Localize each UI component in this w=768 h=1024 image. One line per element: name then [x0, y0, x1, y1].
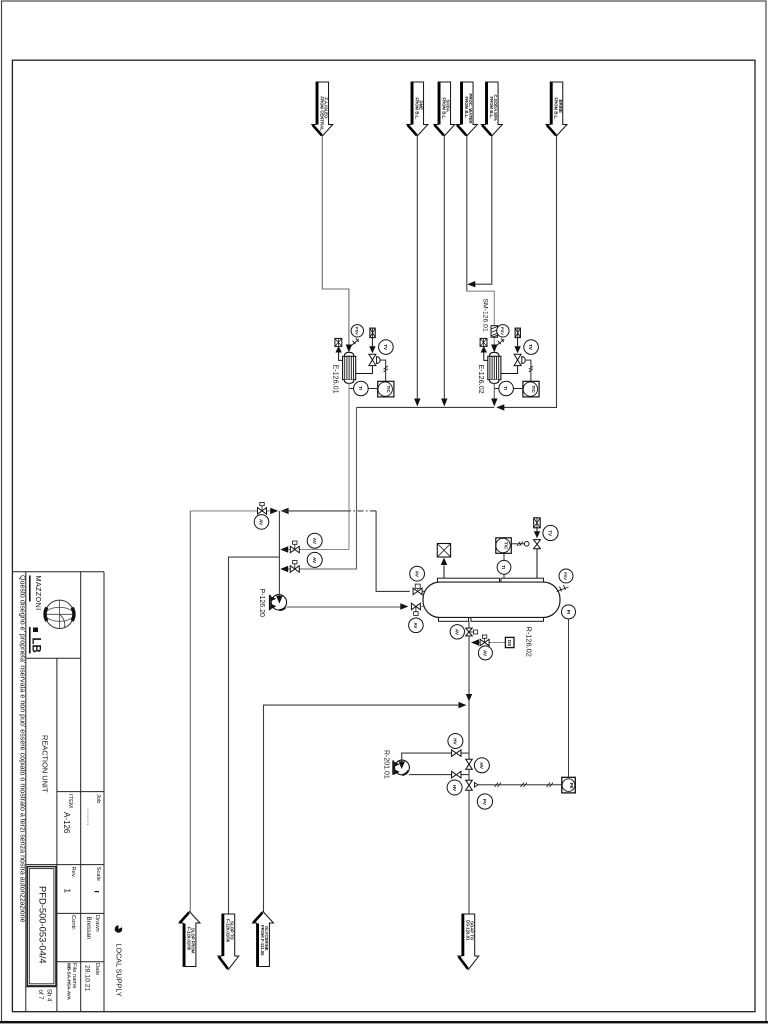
- svg-text:FROM F-111.06: FROM F-111.06: [260, 925, 265, 956]
- svg-text:Job: Job: [95, 794, 101, 803]
- off-page arrow A2 DME FROM B.L.: [407, 82, 428, 136]
- instrument TI on reactor: [497, 560, 511, 574]
- svg-text:.........: .........: [86, 808, 93, 826]
- wire mixed soda/water to SM and E-126.02: [467, 291, 495, 345]
- controller TIC: [523, 381, 539, 397]
- svg-text:Date: Date: [94, 963, 100, 975]
- wire junction column down to pump: [278, 511, 280, 598]
- control valve TV on E-126.01 steam: [369, 354, 380, 365]
- svg-text:FROM B.L.: FROM B.L.: [464, 97, 469, 119]
- drain valve on outlet: [466, 628, 478, 636]
- title block outline: [12, 571, 104, 573]
- row line top of ITEM/Job: [57, 791, 104, 793]
- wire valve to shell: [501, 366, 518, 374]
- arrowhead into valve: [514, 346, 520, 353]
- control valve TV on E-126.02 steam: [514, 354, 525, 365]
- wire TI to TIC: [513, 388, 523, 390]
- svg-text:Questo disegno e' proprieta' r: Questo disegno e' proprieta' riservata e…: [19, 575, 27, 923]
- svg-text:of 7: of 7: [37, 990, 43, 1001]
- heat exchanger E-126.02: [488, 352, 501, 383]
- wire pump discharge to reactor: [287, 606, 404, 608]
- pump P-126.20: [270, 594, 287, 610]
- off-page arrow B3 GLYCERINE FROM F-111.06 (up): [253, 912, 274, 967]
- svg-text:E-126.01: E-126.01: [332, 365, 341, 394]
- PFD number double box: [27, 867, 56, 986]
- arrowhead down on main at junction: [466, 694, 472, 702]
- row line Sh-of: [26, 986, 57, 988]
- wire pump outlet lower branch: [409, 774, 469, 776]
- instrument PI: [562, 605, 576, 619]
- wire valve to reactor nozzle: [422, 590, 427, 592]
- wire PE up to PI: [568, 619, 570, 777]
- svg-text:F-126.01/06: F-126.01/06: [187, 927, 192, 951]
- svg-text:Bressan: Bressan: [85, 917, 92, 940]
- svg-text:FROM CENTRAL: FROM CENTRAL: [319, 97, 324, 132]
- signal wire TV valve to TIC: [526, 360, 531, 381]
- wire TI to outlet: [349, 388, 354, 390]
- off-page arrow A5 C.SODA 50% FROM B.L.: [481, 82, 502, 136]
- svg-text:PSV: PSV: [500, 327, 505, 335]
- svg-text:AV: AV: [259, 519, 264, 526]
- signal TIC to valve: [511, 543, 524, 545]
- vent box with X: [335, 338, 342, 346]
- svg-text:Scale: Scale: [95, 867, 101, 882]
- svg-text:A-126: A-126: [62, 812, 71, 834]
- svg-text:1: 1: [63, 889, 72, 894]
- PSV squiggle: [557, 585, 569, 592]
- svg-text:AV: AV: [312, 538, 317, 545]
- controller TIC on reactor: [496, 538, 512, 554]
- arrowhead up into vent box: [481, 346, 487, 353]
- actuator tick on signal takeoff: [475, 783, 479, 787]
- svg-text:REACTION UNIT: REACTION UNIT: [41, 735, 50, 793]
- wire slop-from horizontal to junction: [190, 510, 270, 512]
- wire valve to reactor nozzle low: [420, 606, 427, 608]
- signal break marks: [529, 366, 533, 372]
- wire slop-to branch: [229, 557, 280, 914]
- svg-text:LB: LB: [30, 638, 42, 653]
- svg-text:P-126.20: P-126.20: [258, 589, 265, 618]
- svg-text:F-126.01/06: F-126.01/06: [225, 919, 230, 943]
- svg-text:FROM B.L.: FROM B.L.: [489, 97, 494, 119]
- wire A6 brine down and left: [500, 136, 557, 407]
- arrowhead A6 into E-126.02 outlet: [496, 404, 504, 410]
- signal wire to PE: [478, 784, 562, 786]
- wire reactor top feed from junction: [281, 510, 345, 512]
- wire TI stem: [503, 574, 505, 578]
- svg-text:FROM B.L.: FROM B.L.: [414, 98, 419, 120]
- arrowhead A2 into header: [414, 399, 420, 407]
- svg-text:FROM B.L.: FROM B.L.: [554, 98, 559, 120]
- svg-text:HV: HV: [479, 762, 484, 769]
- svg-text:MB-SA-HSA-AVA: MB-SA-HSA-AVA: [67, 963, 72, 1001]
- wire A1 to E-126.01: [322, 136, 349, 345]
- svg-text:SM-126.01: SM-126.01: [481, 299, 488, 332]
- instrument AV: [450, 625, 464, 639]
- column divider mid: [56, 658, 58, 1012]
- instrument TI: [354, 381, 369, 396]
- svg-text:PFD-500-053-04/4: PFD-500-053-04/4: [38, 886, 49, 964]
- wire drain branch right: [479, 642, 505, 644]
- svg-text:AV: AV: [413, 622, 418, 629]
- wire E-126.01 outlet down: [348, 383, 350, 549]
- wire slop-from riser: [189, 511, 191, 912]
- svg-text:TI: TI: [501, 565, 506, 569]
- arrowhead into E-126.01 top: [346, 345, 352, 353]
- svg-text:FROM B.L.: FROM B.L.: [441, 98, 446, 120]
- svg-text:PV: PV: [482, 799, 487, 806]
- disclaimer column divider: [25, 572, 27, 1012]
- wire header branch left: [284, 568, 357, 570]
- instrument PE box: [562, 777, 576, 793]
- off-page arrow B1 SLOP FROM F-126.01/06 (up): [179, 912, 200, 967]
- instrument HV: [447, 780, 462, 795]
- logo globe: [45, 600, 73, 628]
- instrument PSV: [497, 325, 509, 337]
- signal break marks: [384, 366, 388, 372]
- signal break marks: [495, 783, 502, 788]
- wire TI to TIC: [368, 388, 378, 390]
- wire reactor bottom outlet: [468, 621, 470, 628]
- instrument TV: [524, 340, 539, 355]
- arrowhead into junction column lower: [280, 566, 288, 572]
- valve on recirc upper: [452, 750, 461, 757]
- row line under logo: [26, 657, 81, 659]
- svg-text:TIC: TIC: [386, 386, 391, 394]
- vent box with X: [480, 338, 487, 346]
- wire valve to shell: [356, 366, 373, 374]
- instrument HV: [474, 758, 489, 773]
- row line Filename/Date: [57, 961, 104, 963]
- svg-text:AV: AV: [312, 557, 317, 564]
- arrowhead left into junction: [281, 508, 289, 514]
- svg-text:AV: AV: [455, 629, 460, 636]
- svg-text:MAZZONI: MAZZONI: [34, 576, 43, 611]
- wire steam down to valve: [517, 338, 519, 349]
- sample box DS: [505, 637, 514, 647]
- arrowhead down into valve: [534, 531, 540, 538]
- wire TI to TIC: [503, 553, 505, 560]
- vent box with X: [437, 544, 450, 558]
- wire vent from shell: [339, 349, 343, 361]
- svg-text:Drawn: Drawn: [94, 915, 100, 932]
- arrowhead right into junction: [270, 508, 278, 514]
- controller TIC: [378, 381, 394, 397]
- svg-text:PSV: PSV: [354, 327, 359, 335]
- instrument PSV: [559, 569, 573, 583]
- wire A3 down to header: [443, 136, 445, 400]
- svg-text:ITEM: ITEM: [67, 794, 73, 808]
- wire A4 proc water down: [466, 136, 468, 291]
- PSV squiggle connection: [496, 338, 504, 345]
- svg-text:TIC: TIC: [504, 542, 509, 550]
- wire outlet down: [468, 636, 470, 914]
- arrowhead E-126.02 outlet into header: [491, 399, 497, 407]
- instrument AV: [254, 515, 269, 530]
- arrowhead up to vent box: [441, 558, 447, 566]
- pump R-201.01: [393, 760, 409, 775]
- off-page arrow A4 PROC. WATER FROM B.L.: [456, 82, 477, 136]
- static mixer SM-126.01: [491, 326, 498, 338]
- wire dash-dot segment: [345, 510, 376, 512]
- wire TI to outlet: [494, 388, 499, 390]
- valve AV on header branch: [290, 561, 299, 573]
- column divider right: [80, 572, 82, 1012]
- wire steam down to valve: [371, 338, 373, 349]
- svg-text:AV: AV: [414, 571, 419, 578]
- svg-text:DS-126.01: DS-126.01: [465, 920, 470, 941]
- svg-text:R-201.01: R-201.01: [382, 750, 389, 779]
- arrowhead drain branch into main: [471, 639, 479, 645]
- off-page arrow A1 F.A./OLEO FROM CENTRAL: [312, 82, 333, 136]
- signal wire TV valve to TIC: [380, 360, 385, 381]
- arrowhead into valve: [369, 346, 375, 353]
- steam box above valve: [534, 518, 541, 528]
- wire E-126.02 outlet down to header: [493, 383, 495, 399]
- off-page arrow A6 BRINE FROM B.L.: [546, 82, 567, 136]
- valve AV on slop-from line: [258, 502, 267, 514]
- valve AV on drain branch: [480, 635, 489, 646]
- wire valve to reactor top: [536, 549, 538, 578]
- instrument AV: [478, 646, 492, 660]
- svg-text:Contr.: Contr.: [70, 915, 76, 931]
- wire E-126.01 outlet branch left: [284, 549, 350, 551]
- svg-text:28.10.21: 28.10.21: [84, 965, 91, 992]
- row line Contr/Drawn: [57, 912, 104, 914]
- svg-text:TV: TV: [528, 344, 533, 350]
- valve AV on reactor top feed: [413, 584, 422, 595]
- arrowhead on discharge: [400, 603, 408, 609]
- instrument HV: [448, 734, 463, 749]
- steam supply box DS: [370, 328, 375, 338]
- instrument TI: [499, 381, 514, 396]
- arrowhead up into vent box: [335, 346, 341, 353]
- logo MAZZONI: [30, 576, 74, 654]
- valve AV on reactor bottom feed: [411, 603, 420, 615]
- row line top of Rev/Scale: [26, 864, 104, 866]
- signal break marks: [517, 542, 523, 546]
- wire A5 c.soda down and left: [471, 136, 492, 284]
- actuator circle: [524, 542, 529, 547]
- arrowhead A5 into A4 line: [467, 281, 475, 287]
- svg-text:HV: HV: [453, 738, 458, 745]
- arrowhead into E-126.02 top: [491, 345, 497, 353]
- instrument AV: [307, 552, 322, 567]
- svg-text:TV: TV: [548, 530, 553, 537]
- valve on main between taps: [466, 759, 473, 769]
- instrument AV: [410, 566, 425, 581]
- svg-text:DS: DS: [507, 640, 512, 647]
- wire relief riser: [443, 566, 445, 579]
- svg-text:PE: PE: [569, 783, 574, 789]
- steam supply box DS: [515, 328, 520, 338]
- off-page arrow B4 SOAP TO DS-126.01 (down): [458, 914, 479, 970]
- wire reactor top feed drop: [376, 511, 410, 592]
- svg-text:Rev.: Rev.: [70, 867, 76, 879]
- instrument PSV: [351, 325, 363, 337]
- wire header from E-126.02 outlet to left drop: [357, 406, 495, 408]
- svg-text:TIC: TIC: [531, 386, 536, 394]
- svg-text:E-126.02: E-126.02: [477, 365, 486, 394]
- svg-text:PSV: PSV: [563, 572, 568, 580]
- svg-text:TV: TV: [383, 344, 388, 350]
- valve on main below loop: [466, 780, 473, 790]
- valve AV on E-126.01 outlet branch: [290, 541, 299, 553]
- vent control valve on reactor: [534, 540, 541, 549]
- valve on recirc lower: [452, 771, 461, 778]
- wire header drop down: [356, 407, 358, 569]
- off-page arrow A3 SODA FROM B.L.: [434, 82, 455, 136]
- reactor vessel R-126.02: [423, 578, 560, 621]
- wire A2 down to header: [416, 136, 418, 400]
- instrument TV: [379, 340, 394, 355]
- svg-text:PI: PI: [566, 610, 571, 614]
- instrument TV: [543, 525, 558, 540]
- arrowhead into junction column upper: [280, 546, 288, 552]
- arrowhead A3 into header: [441, 399, 447, 407]
- arrowhead glycerine into main line: [459, 702, 467, 708]
- LOCAL SUPPLY mark: [115, 925, 124, 997]
- wire glycerine riser and feed: [264, 705, 463, 911]
- svg-text:R-126.02: R-126.02: [525, 627, 534, 657]
- svg-text:HV: HV: [452, 785, 457, 792]
- svg-text:AV: AV: [483, 650, 488, 657]
- instrument AV: [409, 618, 424, 633]
- svg-text:TI: TI: [503, 386, 508, 390]
- svg-text:TI: TI: [358, 386, 363, 390]
- off-page arrow B2 SLOP TO F-126.01/06 (down): [218, 914, 239, 970]
- wire box to valve: [536, 528, 538, 533]
- svg-text:Sh 4: Sh 4: [46, 989, 52, 1002]
- wire recirc upper branch: [402, 753, 469, 762]
- instrument AV: [307, 533, 322, 548]
- heat exchanger E-126.01: [343, 352, 356, 383]
- wire vent from shell: [484, 349, 488, 361]
- instrument PV: [477, 794, 492, 809]
- PSV squiggle connection: [351, 338, 359, 345]
- svg-text:LOCAL SUPPLY: LOCAL SUPPLY: [115, 944, 124, 997]
